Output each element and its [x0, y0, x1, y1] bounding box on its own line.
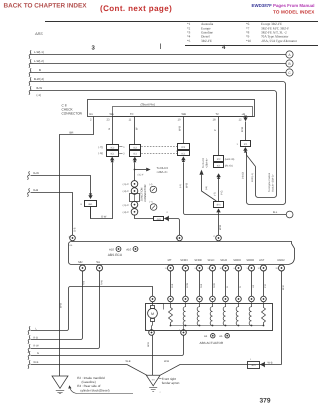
svg-text:Module <28A-3>: Module <28A-3>: [272, 174, 275, 192]
svg-text:(-8)-C: (-8)-C: [123, 211, 130, 214]
svg-text:3RZ-FE: 3RZ-FE: [201, 39, 212, 43]
svg-text:TO MODEL INDEX: TO MODEL INDEX: [273, 9, 315, 14]
svg-text:L-W(-1): L-W(-1): [34, 50, 44, 54]
svg-text:IC2: IC2: [111, 147, 115, 150]
svg-text:A6: A6: [219, 335, 223, 338]
svg-text:G: G: [108, 128, 111, 130]
svg-text:(-6)[: (-6)[: [98, 152, 103, 155]
svg-text:Except 3RZ-FE: Except 3RZ-FE: [261, 22, 282, 26]
svg-text:*9: *9: [246, 34, 250, 38]
svg-text:SFLH: SFLH: [208, 259, 215, 262]
svg-text:<28A-4>: <28A-4>: [205, 158, 208, 168]
svg-text:(HAZ-ID): (HAZ-ID): [225, 158, 235, 161]
svg-text:(-7): (-7): [213, 192, 216, 196]
svg-text:WB: WB: [182, 113, 187, 116]
svg-text:G: G: [226, 286, 229, 288]
svg-text:BACK TO CHAPTER INDEX: BACK TO CHAPTER INDEX: [4, 3, 88, 10]
svg-text:W-B: W-B: [179, 126, 182, 131]
svg-text:12: 12: [239, 119, 242, 122]
svg-text:G-B: G-B: [73, 227, 76, 232]
svg-text:fender apron: fender apron: [162, 381, 180, 385]
svg-text:T2: T2: [216, 113, 220, 116]
svg-text:P: P: [214, 129, 217, 131]
svg-text:A6: A6: [204, 335, 208, 338]
svg-text:*1: *1: [187, 22, 191, 26]
svg-text:4H1: 4H1: [216, 204, 221, 207]
svg-text:(-1): (-1): [179, 184, 182, 188]
svg-text:*6: *6: [246, 22, 250, 26]
svg-text:cylinder block(Diesel): cylinder block(Diesel): [80, 388, 109, 392]
svg-text:CONNECTOR: CONNECTOR: [62, 111, 83, 115]
svg-text:R-B: R-B: [33, 336, 38, 339]
svg-text:(-1): (-1): [37, 93, 42, 97]
svg-text:(Cont. next page): (Cont. next page): [100, 4, 172, 13]
svg-text:(-1) Y: (-1) Y: [138, 174, 144, 177]
svg-text:IC2: IC2: [133, 147, 137, 150]
svg-text:LG: LG: [252, 285, 255, 288]
svg-text:Y-B: Y-B: [264, 284, 267, 288]
svg-text:EWD387F Pages From Manual: EWD387F Pages From Manual: [252, 3, 315, 8]
svg-text:R-B: R-B: [200, 283, 203, 288]
svg-text:ABS ACTUATOR: ABS ACTUATOR: [200, 341, 224, 345]
svg-text:(-7)[: (-7)[: [98, 146, 103, 149]
svg-text:W-B: W-B: [126, 360, 131, 363]
svg-text:-85A, 55A Type Alternator: -85A, 55A Type Alternator: [261, 39, 298, 43]
svg-text:W-B: W-B: [219, 225, 222, 230]
svg-text:SFLR: SFLR: [220, 259, 227, 262]
svg-text:To Engine Control: To Engine Control: [268, 173, 271, 192]
svg-text:W-B: W-B: [147, 342, 150, 347]
svg-text:(Short Pin): (Short Pin): [141, 103, 155, 107]
svg-text:18: 18: [213, 119, 216, 122]
svg-text:+B: +B: [242, 113, 246, 116]
svg-text:(-5)-C: (-5)-C: [123, 204, 130, 207]
svg-text:4H1: 4H1: [157, 218, 162, 221]
svg-text:WA: WA: [110, 113, 114, 116]
svg-text:R: R: [239, 286, 242, 288]
svg-text:TC: TC: [130, 113, 134, 116]
svg-text:4H1: 4H1: [88, 203, 93, 206]
svg-text:G-W: G-W: [33, 171, 39, 175]
svg-text:W-B: W-B: [60, 303, 63, 308]
svg-text:W-B: W-B: [282, 285, 285, 290]
svg-text:SFRR: SFRR: [194, 259, 201, 262]
svg-text:*10: *10: [246, 39, 251, 43]
svg-text:A10: A10: [126, 248, 131, 252]
svg-text:<28A-4>: <28A-4>: [157, 170, 168, 174]
svg-text:ABS: ABS: [34, 32, 43, 36]
svg-text:4H1: 4H1: [251, 364, 256, 367]
svg-text:B-L: B-L: [273, 211, 278, 214]
svg-text:R-B: R-B: [83, 280, 86, 285]
svg-text:IC1: IC1: [111, 153, 115, 156]
svg-text:B-W: B-W: [241, 126, 244, 132]
svg-text:BR: BR: [70, 130, 74, 134]
svg-text:R-W: R-W: [100, 279, 103, 285]
svg-text:IC1: IC1: [181, 152, 185, 155]
svg-text:AST: AST: [259, 259, 265, 262]
svg-text:SRRH: SRRH: [233, 259, 241, 262]
svg-text:379: 379: [260, 398, 271, 405]
svg-text:W-B: W-B: [268, 361, 273, 364]
svg-text:M: M: [151, 312, 154, 316]
svg-text:*5: *5: [187, 39, 191, 43]
svg-text:R-W: R-W: [33, 345, 39, 348]
svg-text:MT: MT: [168, 259, 172, 262]
svg-text:W-B: W-B: [185, 183, 188, 188]
svg-text:70A Type Alternator: 70A Type Alternator: [261, 34, 289, 38]
svg-text:B-W(-2): B-W(-2): [34, 77, 44, 81]
svg-text:L-W(-2): L-W(-2): [34, 59, 44, 63]
svg-text:G-B: G-B: [33, 188, 38, 192]
svg-text:23: 23: [107, 119, 110, 122]
svg-text:(-4): (-4): [149, 183, 153, 186]
svg-text:ABS ECU: ABS ECU: [108, 253, 123, 257]
svg-text:(-7): (-7): [149, 201, 153, 204]
svg-text:IC2: IC2: [181, 146, 185, 149]
svg-text:B-W: B-W: [37, 86, 43, 90]
svg-text:W-B: W-B: [164, 360, 169, 363]
svg-text:(-4)-(2): (-4)-(2): [242, 172, 245, 179]
svg-text:MR: MR: [78, 260, 82, 264]
svg-text:G-B: G-B: [171, 283, 174, 288]
svg-text:10: 10: [178, 119, 181, 122]
svg-text:CONNECTOR: CONNECTOR: [144, 184, 147, 201]
svg-text:E1: E1: [90, 113, 94, 116]
svg-text:B: B: [39, 68, 41, 72]
svg-text:SFRH: SFRH: [180, 259, 187, 262]
svg-text:Australia: Australia: [201, 22, 214, 26]
svg-text:*4: *4: [187, 34, 191, 38]
svg-text:Diesel: Diesel: [201, 34, 210, 38]
svg-text:(-5)-C: (-5)-C: [123, 183, 130, 186]
svg-text:G-W: G-W: [186, 282, 189, 288]
svg-text:GND2: GND2: [277, 259, 285, 262]
svg-text:SRRR: SRRR: [246, 259, 254, 262]
svg-text:A10: A10: [109, 248, 114, 252]
svg-text:Y-G: Y-G: [221, 191, 224, 195]
svg-text:(RL-ID): (RL-ID): [225, 165, 233, 168]
svg-text:SA: SA: [96, 260, 100, 264]
svg-text:G: G: [37, 352, 39, 355]
svg-text:W-B: W-B: [33, 361, 38, 364]
svg-text:G-W: G-W: [101, 215, 107, 218]
svg-text:(-6): (-6): [205, 186, 208, 190]
svg-text:(-8)-C: (-8)-C: [123, 190, 130, 193]
svg-text:IC1: IC1: [133, 153, 137, 156]
svg-text:R-W: R-W: [213, 282, 216, 288]
svg-text:B-W (-1): B-W (-1): [251, 173, 254, 182]
